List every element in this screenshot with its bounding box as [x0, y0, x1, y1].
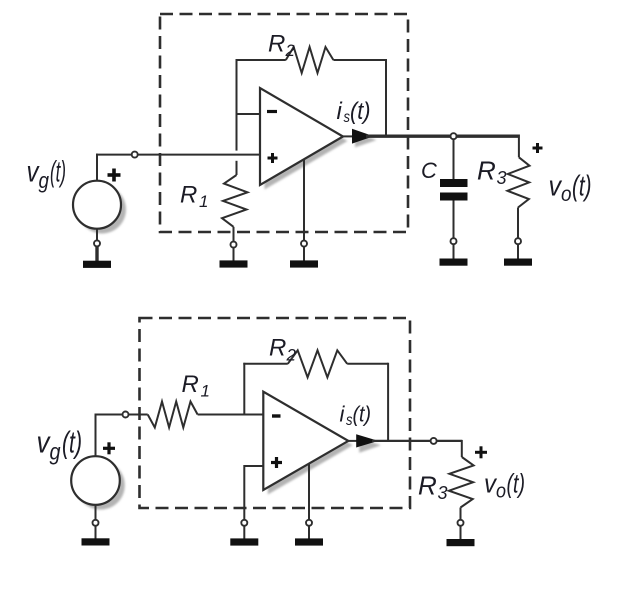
- source Vg (bottom): [71, 456, 120, 505]
- svg-text:3: 3: [438, 483, 448, 503]
- ground of R3 (bottom): [447, 520, 475, 546]
- svg-text:(t): (t): [572, 171, 592, 203]
- svg-text:R: R: [182, 371, 199, 398]
- label Vo(t) (top): [549, 171, 592, 207]
- svg-text:(t): (t): [62, 425, 82, 460]
- resistor R2 (bottom) with feedback wires: [243, 350, 388, 441]
- ground of + input (bottom): [230, 520, 258, 546]
- source Vg (top): [73, 181, 121, 229]
- output arrow shadow (bottom): [359, 438, 381, 453]
- op-amp U1 shadow (top): [265, 93, 348, 190]
- svg-text:o: o: [561, 183, 572, 206]
- resistor R1 (bottom, horizontal): [148, 402, 198, 428]
- svg-text:g: g: [39, 168, 50, 193]
- label Vo(t) (bottom): [484, 469, 525, 503]
- wire op-amp ground branch (bottom): [308, 463, 310, 520]
- node C (bottom input): [123, 412, 129, 418]
- ground of R3 (top): [504, 238, 532, 266]
- wire feedback vertical from R2 to - input (top): [236, 59, 238, 151]
- svg-text:1: 1: [199, 192, 208, 211]
- dashed box (top circuit): [160, 14, 408, 232]
- wire - input (top): [236, 113, 261, 115]
- svg-text:R: R: [269, 335, 286, 362]
- current arrow is (bottom): [356, 434, 378, 447]
- wire node to op-amp + input (top): [138, 154, 260, 156]
- ground of op-amp (top): [290, 241, 318, 268]
- op-amp U2 (bottom): [263, 392, 348, 490]
- node A (top input): [132, 152, 138, 158]
- capacitor C (top): [453, 139, 455, 179]
- svg-text:R: R: [180, 182, 197, 209]
- plus polarity of source (top): [108, 169, 121, 182]
- label Vg(t) (bottom): [37, 425, 83, 465]
- svg-text:R: R: [477, 155, 496, 185]
- wire op-amp output (bottom): [348, 440, 360, 442]
- node B (output, top): [451, 133, 457, 139]
- op-amp U1 (top): [260, 88, 343, 185]
- label R3 (top): [477, 155, 507, 188]
- ground of R1 (top): [220, 242, 248, 268]
- label R3 (bottom): [418, 471, 448, 504]
- output arrow shadow (top): [355, 133, 377, 148]
- svg-text:R: R: [418, 471, 437, 501]
- op-amp U1 minus sign: [267, 110, 277, 113]
- plus polarity of source (bottom): [103, 442, 115, 454]
- svg-text:3: 3: [497, 168, 507, 188]
- wire source-bottom (bottom): [95, 505, 97, 520]
- svg-text:C: C: [421, 158, 437, 183]
- op-amp U2 plus sign: [271, 457, 282, 468]
- resistor R2 (top) with feedback wires: [237, 47, 387, 136]
- wire output bus thick (top): [366, 134, 520, 137]
- svg-text:(t): (t): [507, 469, 526, 499]
- svg-text:R: R: [268, 31, 285, 58]
- ground of source (bottom): [82, 520, 110, 546]
- node D (output, bottom): [431, 438, 437, 444]
- op-amp U2 shadow (bottom): [268, 396, 353, 494]
- svg-text:g: g: [50, 439, 61, 465]
- plus polarity of output (top): [533, 143, 543, 153]
- svg-text:o: o: [496, 481, 506, 503]
- svg-text:2: 2: [285, 41, 296, 60]
- svg-text:(t): (t): [50, 156, 66, 189]
- label R1 (bottom): [182, 371, 210, 401]
- wire R1 to op-amp - input (bottom): [198, 414, 264, 416]
- dashed box (bottom circuit): [140, 318, 411, 508]
- op-amp U1 plus sign: [268, 153, 278, 163]
- label R2 (top): [268, 31, 296, 61]
- label Vg(t) (top): [27, 156, 67, 194]
- ground of source (top): [83, 240, 111, 268]
- wire + input to ground (bottom): [244, 465, 263, 467]
- resistor R1 (top, vertical): [222, 161, 248, 242]
- wire node to R3 (bottom): [437, 440, 462, 442]
- svg-text:1: 1: [201, 382, 210, 401]
- wire op-amp ground branch (top): [303, 160, 305, 241]
- svg-text:(t): (t): [350, 98, 371, 125]
- label R1 (top): [180, 182, 208, 212]
- current arrow is (top): [352, 129, 374, 144]
- svg-text:i: i: [337, 98, 343, 125]
- op-amp U2 minus sign: [272, 414, 281, 417]
- ground of op-amp (bottom): [295, 520, 323, 546]
- source Vg shadow (bottom): [76, 461, 125, 510]
- wire output to node (bottom): [372, 440, 431, 442]
- svg-text:2: 2: [286, 346, 297, 365]
- wire node to R1 (bottom): [128, 414, 147, 416]
- wire source-bottom (top): [96, 229, 98, 241]
- label is(t) (bottom): [340, 402, 372, 430]
- wire op-amp output (top): [343, 135, 356, 137]
- wire source-top to node (top): [96, 154, 98, 181]
- svg-text:(t): (t): [353, 402, 372, 427]
- ground of C (top): [440, 238, 468, 266]
- plus polarity of output (bottom): [475, 446, 487, 458]
- wire feedback vertical (bottom): [243, 363, 245, 415]
- label is(t) (top): [337, 98, 371, 126]
- resistor R3 (bottom, vertical): [449, 457, 474, 508]
- label R2 (bottom): [269, 335, 297, 365]
- resistor R3 (top, vertical): [508, 135, 530, 239]
- source Vg shadow (top): [78, 186, 126, 234]
- wire source-top to node (bottom): [95, 414, 97, 457]
